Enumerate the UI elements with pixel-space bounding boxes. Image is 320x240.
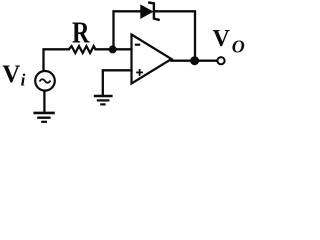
- svg-text:V: V: [213, 26, 231, 52]
- wire: resistor to op-amp inverting input: [96, 48, 132, 50]
- svg-text:O: O: [232, 37, 245, 57]
- wire: feedback top right and right vertical down to output node: [155, 11, 196, 60]
- output terminal Vo: [217, 57, 224, 64]
- label Vo: [213, 26, 245, 57]
- op-amp U1: [132, 35, 172, 84]
- label Vi: [2, 61, 25, 90]
- zener diode D1: [141, 3, 159, 20]
- node: junction at resistor output: [109, 45, 117, 53]
- ground: op-amp non-inverting input: [94, 96, 113, 104]
- svg-text:i: i: [21, 71, 26, 90]
- wire: feedback left vertical: [114, 11, 142, 49]
- node: output junction: [190, 56, 199, 65]
- wire: source top vertical and input row to resistor: [44, 49, 69, 71]
- ground: source: [33, 113, 54, 122]
- wire: output to terminal: [172, 60, 218, 62]
- svg-text:V: V: [2, 61, 20, 88]
- wire: source bottom to ground: [43, 91, 45, 112]
- label R: [72, 16, 90, 51]
- wire: non-inverting input to ground: [103, 70, 132, 95]
- voltage source Vi: [35, 71, 55, 91]
- resistor R: [69, 46, 96, 53]
- svg-text:R: R: [72, 16, 90, 51]
